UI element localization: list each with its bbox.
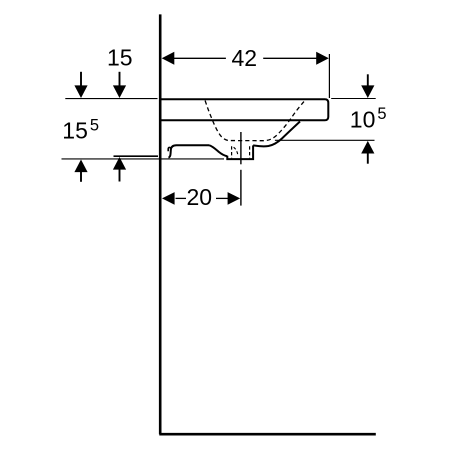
drain centerline lower segment: [240, 170, 242, 206]
dimension 42 line right segment: [263, 57, 317, 59]
dimension 15.5 top arrow: [74, 85, 87, 98]
drain siphon dashed curve: [234, 147, 238, 156]
svg-text:42: 42: [232, 45, 258, 71]
dimension 10.5 lower extension line: [275, 139, 375, 141]
basin interior dashed outline: [205, 101, 305, 141]
svg-text:20: 20: [187, 184, 213, 210]
dimension 15 top arrow: [113, 85, 126, 98]
dimension 42 extension line: [328, 54, 330, 98]
dimension 42 left arrowhead: [162, 52, 175, 65]
dimension 10.5 top arrow: [361, 85, 374, 98]
dimension 42 line left segment: [174, 57, 226, 59]
basin underside left plate with wall hook: [168, 145, 209, 157]
bottom reference line 15.5: [62, 158, 225, 160]
dimension 10.5 bottom arrow: [361, 141, 374, 154]
drain pipe dashed line left: [231, 146, 233, 158]
svg-text:15: 15: [107, 45, 133, 71]
dimension 15.5 bottom arrow: [74, 160, 87, 173]
svg-text:105: 105: [350, 105, 387, 132]
bottom reference line 15: [114, 155, 159, 157]
dimension 20 right arrowhead: [228, 192, 241, 205]
basin underside bowl curve right: [253, 122, 300, 147]
dimension 10.5 upper extension line: [331, 98, 376, 100]
dimension 15 bottom arrow: [113, 157, 126, 170]
drain pipe dashed line right: [249, 146, 251, 158]
svg-text:155: 155: [62, 116, 99, 143]
floor: [159, 433, 375, 436]
dimension 20 line right segment: [216, 197, 229, 199]
wall: [159, 14, 162, 434]
dimension 20 line left segment: [176, 197, 187, 199]
basin underside bowl curve left: [209, 145, 227, 156]
dimension 42 right arrowhead: [316, 52, 329, 65]
top reference line: [65, 98, 157, 100]
basin underside hook curl: [168, 147, 171, 151]
drain trap box: [227, 145, 253, 159]
washbasin rim slab: [161, 99, 328, 120]
drain centerline upper segment: [240, 132, 242, 164]
dimension 20 left arrowhead: [162, 192, 175, 205]
